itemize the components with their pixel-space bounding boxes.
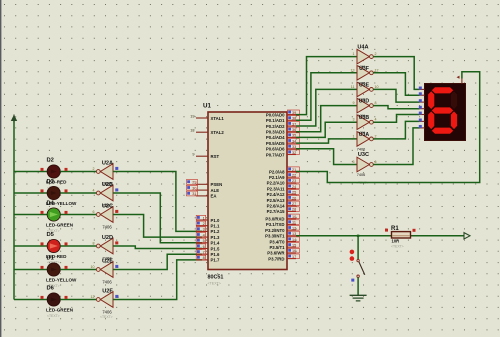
ground bbox=[350, 295, 367, 301]
svg-text:P1.7: P1.7 bbox=[211, 258, 220, 263]
pin 34 P0.5/AD5 bbox=[287, 142, 296, 144]
wire P0.3 to gate 4 bbox=[296, 106, 357, 132]
inverter U2E 7406 bbox=[96, 262, 113, 278]
pin state marker at U2A input bbox=[115, 167, 118, 170]
svg-text:PSEN: PSEN bbox=[211, 182, 223, 187]
pin state marker red right of D4 bbox=[65, 211, 68, 214]
wire rail to D2 bbox=[14, 171, 47, 173]
wire D3 to gate bbox=[60, 192, 96, 194]
junction node bbox=[357, 235, 359, 237]
pin 39 P0.0/AD0 bbox=[287, 114, 296, 116]
svg-text:P3.5/T1: P3.5/T1 bbox=[269, 245, 285, 250]
LED D5 LED-RED bbox=[47, 239, 60, 252]
svg-text:9: 9 bbox=[192, 153, 194, 157]
svg-text:U3D: U3D bbox=[359, 99, 370, 105]
svg-text:D6: D6 bbox=[47, 286, 55, 292]
svg-text:13: 13 bbox=[351, 68, 355, 72]
svg-text:LED-GREEN: LED-GREEN bbox=[46, 308, 74, 313]
svg-text:P2.7/A15: P2.7/A15 bbox=[267, 209, 286, 214]
display pin 6 bbox=[420, 120, 425, 122]
svg-text:P1.6: P1.6 bbox=[211, 252, 220, 257]
wire U2B input to MCU P1 bbox=[113, 193, 202, 243]
svg-text:35: 35 bbox=[292, 134, 296, 138]
svg-text:U2C: U2C bbox=[102, 203, 113, 209]
wire D5 to gate bbox=[60, 245, 96, 247]
wire U2C input to MCU P1 bbox=[113, 215, 202, 238]
pin 35 P0.4/AD4 bbox=[287, 136, 296, 138]
wire gate U3C output to display bbox=[373, 128, 419, 165]
svg-text:22: 22 bbox=[292, 174, 296, 178]
wire gate U3F output to display bbox=[373, 73, 419, 95]
svg-text:P2.4/A12: P2.4/A12 bbox=[267, 192, 286, 197]
svg-text:8: 8 bbox=[375, 101, 377, 105]
LED D1 LED-YELLOW bbox=[47, 263, 60, 276]
inverter U2F 7406 bbox=[96, 292, 113, 308]
wire P0.0 to gate 1 bbox=[296, 57, 357, 115]
svg-text:10: 10 bbox=[292, 215, 296, 219]
svg-text:D2: D2 bbox=[47, 158, 54, 164]
svg-text:2: 2 bbox=[375, 134, 377, 138]
pin state marker red left of D5 bbox=[41, 242, 44, 245]
svg-text:P3.0/RXD: P3.0/RXD bbox=[265, 217, 284, 222]
svg-text:P0.1/AD1: P0.1/AD1 bbox=[266, 118, 285, 123]
svg-text:14: 14 bbox=[292, 238, 296, 242]
inverter U3C 7406 bbox=[357, 157, 373, 172]
svg-text:P2.0/A8: P2.0/A8 bbox=[269, 169, 285, 174]
svg-text:16: 16 bbox=[292, 249, 296, 253]
pin state marker red right of D2 bbox=[65, 168, 68, 171]
wire U2E input to MCU P1 bbox=[113, 254, 202, 269]
pin 11 P3.1/TXD bbox=[287, 223, 296, 225]
svg-text:D3: D3 bbox=[47, 179, 55, 185]
svg-text:U2E: U2E bbox=[102, 258, 113, 264]
wire U2A input to MCU P1 bbox=[113, 172, 202, 232]
svg-text:1: 1 bbox=[353, 52, 355, 56]
svg-text:P1.5: P1.5 bbox=[211, 246, 220, 251]
wire U2D input to MCU P1 bbox=[113, 246, 202, 249]
pin state marker red right of D5 bbox=[65, 242, 68, 245]
inverter U2C 7406 bbox=[96, 207, 113, 223]
svg-text:7406: 7406 bbox=[357, 173, 365, 177]
svg-text:18: 18 bbox=[190, 129, 194, 133]
pin state marker at U2C input bbox=[115, 210, 118, 213]
inverter U3E 7406 bbox=[357, 82, 373, 97]
svg-text:U3B: U3B bbox=[359, 115, 370, 121]
svg-text:P0.7/AD7: P0.7/AD7 bbox=[266, 152, 285, 157]
power terminal arrow bbox=[11, 115, 17, 123]
svg-text:32: 32 bbox=[292, 151, 296, 155]
svg-text:P2.3/A11: P2.3/A11 bbox=[267, 186, 285, 191]
pin 16 P3.6/WR bbox=[287, 252, 296, 254]
svg-text:P3.7/RD: P3.7/RD bbox=[268, 256, 284, 261]
wire gate U4A output to display bbox=[373, 57, 419, 90]
svg-text:11: 11 bbox=[351, 85, 355, 89]
svg-text:P1.2: P1.2 bbox=[211, 229, 220, 234]
display pin 5 bbox=[420, 114, 425, 116]
pin state marker right of R1 bbox=[413, 229, 416, 232]
svg-text:U3F: U3F bbox=[359, 66, 369, 72]
svg-text:10: 10 bbox=[375, 85, 379, 89]
svg-text:1: 1 bbox=[203, 216, 205, 220]
display pin 2 bbox=[420, 94, 425, 96]
wire U2F input to MCU P1 bbox=[113, 260, 202, 300]
pin 22 P2.1/A9 bbox=[287, 176, 296, 178]
wire D6 to gate bbox=[60, 299, 96, 301]
svg-text:U3C: U3C bbox=[358, 152, 369, 158]
display common pin top bbox=[461, 79, 463, 84]
pin state marker at U2B input bbox=[115, 188, 118, 191]
display pin 1 bbox=[420, 88, 425, 90]
svg-text:R1: R1 bbox=[391, 226, 399, 232]
wire P0.6 to gate 7 bbox=[296, 149, 357, 165]
svg-text:6: 6 bbox=[203, 245, 205, 249]
pin state marker at U2E input bbox=[115, 265, 118, 268]
svg-text:P1.0: P1.0 bbox=[211, 218, 220, 223]
wire switch to ground bbox=[357, 277, 359, 295]
display pin 3 bbox=[420, 101, 425, 103]
wire rail to D1 bbox=[14, 269, 47, 271]
wire P0.4 to gate 5 bbox=[296, 122, 357, 137]
svg-text:21: 21 bbox=[292, 168, 296, 172]
svg-text:LED-GREEN: LED-GREEN bbox=[46, 223, 74, 228]
svg-text:U3A: U3A bbox=[359, 132, 370, 138]
svg-text:7406: 7406 bbox=[102, 279, 112, 284]
svg-text:P0.2/AD2: P0.2/AD2 bbox=[266, 124, 285, 129]
inverter U3B 7406 bbox=[357, 115, 373, 130]
terminal arrow bbox=[464, 233, 470, 239]
svg-text:P1.4: P1.4 bbox=[211, 241, 220, 246]
svg-text:4: 4 bbox=[375, 118, 377, 122]
svg-text:2: 2 bbox=[203, 222, 205, 226]
svg-text:D5: D5 bbox=[47, 232, 55, 238]
wire P0.5 to gate 6 bbox=[296, 139, 357, 143]
svg-text:10R: 10R bbox=[392, 239, 400, 244]
svg-text:EA: EA bbox=[211, 194, 217, 199]
pin 19 XTAL1 bbox=[196, 117, 208, 119]
svg-text:26: 26 bbox=[292, 196, 296, 200]
pin state marker at U2D input bbox=[115, 241, 118, 244]
wire P0.1 to gate 2 bbox=[296, 73, 357, 121]
pin 31 EA bbox=[196, 195, 208, 197]
pin 2 P1.1 bbox=[196, 225, 208, 227]
svg-text:6: 6 bbox=[93, 210, 95, 214]
pin 9 RST bbox=[196, 155, 208, 157]
pin 15 P3.5/T1 bbox=[287, 246, 296, 248]
svg-text:U4A: U4A bbox=[357, 45, 368, 51]
switch SW1 bbox=[357, 259, 365, 277]
pin state marker red right of D1 bbox=[65, 266, 68, 269]
svg-text:U3E: U3E bbox=[359, 82, 370, 88]
svg-text:37: 37 bbox=[292, 122, 296, 126]
pin state marker at U2F input bbox=[115, 295, 118, 298]
wire power rail vertical bbox=[13, 121, 15, 300]
svg-text:P2.5/A13: P2.5/A13 bbox=[267, 198, 286, 203]
pin 21 P2.0/A8 bbox=[287, 171, 296, 173]
svg-text:D1: D1 bbox=[47, 256, 55, 262]
svg-text:38: 38 bbox=[292, 117, 296, 121]
display segment b bbox=[451, 91, 457, 109]
pin state marker left of R1 bbox=[385, 229, 388, 232]
svg-text:<TEXT>: <TEXT> bbox=[208, 282, 221, 286]
LED D2 LED-RED bbox=[47, 165, 60, 178]
switch toggle marker red dots bbox=[350, 250, 355, 255]
svg-text:P1.3: P1.3 bbox=[211, 235, 220, 240]
wire junction to switch bbox=[357, 236, 359, 259]
svg-text:P0.0/AD0: P0.0/AD0 bbox=[266, 112, 285, 117]
wire D1 to gate bbox=[60, 269, 96, 271]
svg-text:P3.2/INT0: P3.2/INT0 bbox=[265, 228, 285, 233]
svg-text:31: 31 bbox=[192, 192, 196, 196]
svg-text:6: 6 bbox=[375, 160, 377, 164]
svg-text:P3.3/INT1: P3.3/INT1 bbox=[265, 234, 285, 239]
inverter U2B 7406 bbox=[96, 185, 113, 201]
svg-text:30: 30 bbox=[192, 186, 196, 190]
svg-text:10: 10 bbox=[91, 265, 95, 269]
svg-text:5: 5 bbox=[353, 160, 355, 164]
pin state marker red left of D6 bbox=[41, 296, 44, 299]
wire R1 to terminal bbox=[411, 235, 465, 237]
svg-text:P3.4/T0: P3.4/T0 bbox=[269, 239, 285, 244]
svg-text:25: 25 bbox=[292, 191, 296, 195]
wire gate U3B output to display bbox=[373, 115, 419, 123]
svg-text:LED-YELLOW: LED-YELLOW bbox=[46, 278, 77, 283]
wire gate U3E output to display bbox=[373, 89, 419, 102]
inverter U4A 7406 bbox=[357, 49, 373, 64]
pin state marker below switch bbox=[351, 279, 354, 282]
svg-text:23: 23 bbox=[292, 179, 296, 183]
pin 23 P2.2/A10 bbox=[287, 182, 296, 184]
7-segment display body bbox=[425, 84, 466, 141]
svg-text:9: 9 bbox=[353, 101, 355, 105]
inverter U2D 7406 bbox=[96, 238, 113, 254]
svg-text:7: 7 bbox=[203, 251, 205, 255]
svg-text:4: 4 bbox=[93, 189, 95, 193]
svg-text:XTAL2: XTAL2 bbox=[211, 130, 225, 135]
svg-text:P2.1/A9: P2.1/A9 bbox=[269, 175, 285, 180]
inverter U3A 7406 bbox=[357, 132, 373, 147]
inverter U3F 7406 bbox=[357, 66, 373, 81]
display segment c bbox=[451, 111, 457, 129]
inverter U2A 7406 bbox=[96, 164, 113, 180]
wire rail to D5 bbox=[14, 245, 47, 247]
svg-text:U2A: U2A bbox=[102, 160, 113, 166]
svg-text:<TEXT>: <TEXT> bbox=[47, 314, 60, 318]
svg-text:34: 34 bbox=[292, 139, 296, 143]
display pin 4 bbox=[420, 108, 425, 110]
wire rail to D3 bbox=[14, 192, 47, 194]
svg-text:P3.6/WR: P3.6/WR bbox=[267, 251, 285, 256]
pin 27 P2.6/A14 bbox=[287, 205, 296, 207]
pin 38 P0.1/AD1 bbox=[287, 119, 296, 121]
svg-text:1: 1 bbox=[353, 134, 355, 138]
svg-text:11: 11 bbox=[292, 221, 296, 225]
svg-text:12: 12 bbox=[91, 295, 95, 299]
wire P3.3 to R1 bbox=[296, 235, 392, 237]
svg-text:5: 5 bbox=[203, 239, 205, 243]
LED D4 LED-GREEN bbox=[47, 208, 60, 221]
pin 8 P1.7 bbox=[196, 259, 208, 261]
pin 17 P3.7/RD bbox=[287, 258, 296, 260]
pin state marker red right of D6 bbox=[65, 296, 68, 299]
wire D4 to gate bbox=[60, 214, 96, 216]
svg-text:15: 15 bbox=[292, 244, 296, 248]
svg-text:80C51: 80C51 bbox=[208, 275, 224, 281]
wire P0.2 to gate 3 bbox=[296, 89, 357, 126]
LED D6 LED-GREEN bbox=[47, 293, 60, 306]
pin 36 P0.3/AD3 bbox=[287, 131, 296, 133]
svg-text:D4: D4 bbox=[47, 201, 55, 207]
pin 30 ALE bbox=[196, 189, 208, 191]
pin state marker red left of D3 bbox=[41, 189, 44, 192]
pin 3 P1.2 bbox=[196, 230, 208, 232]
pin 4 P1.3 bbox=[196, 236, 208, 238]
pin 12 P3.2/INT0 bbox=[287, 229, 296, 231]
pin 26 P2.5/A13 bbox=[287, 199, 296, 201]
svg-text:24: 24 bbox=[292, 185, 296, 189]
pin 7 P1.6 bbox=[196, 253, 208, 255]
resistor R1 bbox=[392, 232, 411, 238]
svg-text:4: 4 bbox=[203, 233, 205, 237]
svg-text:17: 17 bbox=[292, 255, 296, 259]
svg-text:8: 8 bbox=[93, 242, 95, 246]
svg-text:P2.6/A14: P2.6/A14 bbox=[267, 204, 286, 209]
svg-text:P0.5/AD5: P0.5/AD5 bbox=[266, 141, 285, 146]
pin 18 XTAL2 bbox=[196, 131, 208, 133]
pin 13 P3.3/INT1 bbox=[287, 235, 296, 237]
svg-text:P3.1/TXD: P3.1/TXD bbox=[266, 222, 285, 227]
svg-text:3: 3 bbox=[353, 118, 355, 122]
wire D2 to gate bbox=[60, 171, 96, 173]
pin 28 P2.7/A15 bbox=[287, 210, 296, 212]
svg-text:28: 28 bbox=[292, 208, 296, 212]
pin 33 P0.6/AD6 bbox=[287, 148, 296, 150]
svg-text:U2B: U2B bbox=[102, 182, 113, 188]
svg-text:XTAL1: XTAL1 bbox=[211, 116, 225, 121]
svg-text:8: 8 bbox=[203, 256, 205, 260]
svg-text:ALE: ALE bbox=[211, 188, 220, 193]
pin state marker red left of D2 bbox=[41, 168, 44, 171]
svg-text:12: 12 bbox=[375, 68, 379, 72]
svg-text:<TEXT>: <TEXT> bbox=[100, 315, 113, 319]
svg-text:2: 2 bbox=[375, 52, 377, 56]
svg-text:39: 39 bbox=[292, 111, 296, 115]
pin 5 P1.4 bbox=[196, 242, 208, 244]
display segment e bbox=[428, 111, 434, 129]
pin 29 PSEN bbox=[196, 183, 208, 185]
display pin 7 bbox=[420, 127, 425, 129]
display segment f bbox=[428, 91, 434, 109]
wire rail to D6 bbox=[14, 299, 47, 301]
LED D3 LED-YELLOW bbox=[47, 186, 60, 199]
svg-text:<TEXT>: <TEXT> bbox=[391, 244, 404, 248]
display segment a bbox=[432, 87, 453, 93]
pin 14 P3.4/T0 bbox=[287, 241, 296, 243]
svg-text:RST: RST bbox=[211, 154, 220, 159]
pin 32 P0.7/AD7 bbox=[287, 154, 296, 156]
svg-text:P0.6/AD6: P0.6/AD6 bbox=[266, 147, 285, 152]
svg-text:P0.3/AD3: P0.3/AD3 bbox=[266, 130, 285, 135]
pin 25 P2.4/A12 bbox=[287, 193, 296, 195]
pin 1 P1.0 bbox=[196, 219, 208, 221]
wire P2.0 to display common bbox=[296, 72, 480, 183]
svg-text:7406: 7406 bbox=[102, 224, 112, 229]
inverter U3D 7406 bbox=[357, 98, 373, 113]
svg-text:12: 12 bbox=[292, 226, 296, 230]
svg-text:3: 3 bbox=[203, 228, 205, 232]
svg-text:36: 36 bbox=[292, 128, 296, 132]
pin state marker red right of D3 bbox=[65, 189, 68, 192]
svg-text:29: 29 bbox=[192, 181, 196, 185]
pin 6 P1.5 bbox=[196, 248, 208, 250]
wire gate U3A output to display bbox=[373, 121, 419, 138]
svg-text:2: 2 bbox=[93, 167, 95, 171]
pin state marker red left of D4 bbox=[41, 211, 44, 214]
svg-text:7406: 7406 bbox=[102, 309, 112, 314]
pin 24 P2.3/A11 bbox=[287, 188, 296, 190]
svg-text:33: 33 bbox=[292, 145, 296, 149]
svg-text:P0.4/AD4: P0.4/AD4 bbox=[266, 135, 285, 140]
svg-text:U2D: U2D bbox=[102, 235, 113, 241]
pin 10 P3.0/RXD bbox=[287, 218, 296, 220]
display segment d bbox=[432, 128, 453, 134]
svg-text:P1.1: P1.1 bbox=[211, 224, 220, 229]
svg-text:P2.2/A10: P2.2/A10 bbox=[267, 181, 286, 186]
display segment g bbox=[432, 107, 453, 113]
pin state marker red left of D1 bbox=[41, 266, 44, 269]
svg-text:27: 27 bbox=[292, 202, 296, 206]
svg-text:13: 13 bbox=[292, 232, 296, 236]
svg-text:U2F: U2F bbox=[102, 288, 113, 294]
wire gate U3D output to display bbox=[373, 106, 419, 109]
svg-text:U1: U1 bbox=[203, 103, 211, 110]
pin 37 P0.2/AD2 bbox=[287, 125, 296, 127]
microcontroller U1 80C51 body bbox=[208, 112, 287, 270]
svg-text:19: 19 bbox=[190, 114, 194, 118]
wire rail to D4 bbox=[14, 214, 47, 216]
